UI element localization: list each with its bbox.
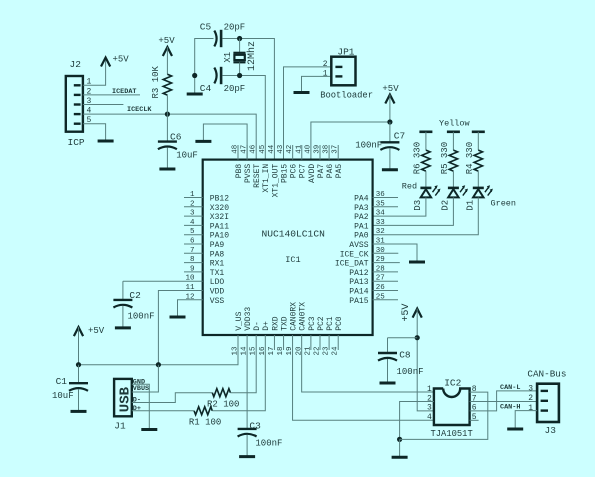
junction C8 tap [415, 335, 420, 340]
capacitor C4 [214, 68, 216, 84]
svg-text:R3 10K: R3 10K [151, 65, 161, 98]
svg-text:PA14: PA14 [349, 288, 368, 297]
svg-text:IC1: IC1 [285, 255, 300, 265]
svg-text:PC7: PC7 [299, 164, 308, 179]
svg-text:AVDD: AVDD [308, 164, 317, 183]
svg-text:RESET: RESET [253, 164, 262, 188]
svg-text:XT1_OUT: XT1_OUT [271, 164, 280, 198]
capacitor C8 [387, 338, 389, 353]
svg-text:C5: C5 [200, 21, 212, 32]
resistor R1 [194, 407, 212, 415]
svg-text:4: 4 [427, 413, 432, 422]
svg-text:D1: D1 [465, 200, 475, 211]
+5V symbol at AVDD [385, 95, 394, 104]
svg-text:20pF: 20pF [224, 84, 246, 94]
wire IC2 pin5 stub [470, 419, 479, 421]
svg-text:JP1: JP1 [337, 46, 354, 57]
svg-text:CAN-L: CAN-L [500, 384, 520, 392]
svg-text:42: 42 [286, 145, 294, 154]
svg-text:32: 32 [376, 228, 385, 236]
junction VDD/VBUS tap [156, 362, 161, 367]
svg-text:ICECLK: ICECLK [127, 106, 152, 114]
svg-text:100nF: 100nF [397, 367, 424, 377]
IC1 bottom pin stubs [273, 335, 275, 350]
svg-text:PA10: PA10 [210, 232, 229, 241]
svg-text:3: 3 [190, 210, 195, 218]
svg-text:D2: D2 [440, 200, 450, 211]
LED D1 [473, 187, 484, 190]
resistor R4 [474, 150, 482, 171]
connector J2 (ICP header) [66, 76, 83, 132]
svg-text:24: 24 [332, 346, 340, 356]
+5V symbol above R3 [163, 47, 172, 56]
svg-text:PA6: PA6 [326, 164, 335, 179]
wire USB GND to ground [132, 384, 150, 428]
svg-text:TXD: TXD [280, 316, 289, 331]
svg-text:8: 8 [190, 256, 195, 264]
svg-text:PA4: PA4 [354, 195, 369, 204]
svg-text:36: 36 [376, 191, 386, 199]
svg-text:18: 18 [277, 346, 285, 355]
wire J3 pin1 to ground [515, 411, 537, 428]
transceiver IC2 body [434, 389, 470, 426]
svg-text:LDO: LDO [210, 278, 225, 287]
svg-text:C4: C4 [200, 83, 212, 94]
svg-text:35: 35 [376, 200, 386, 208]
ground at J2 pin5 [98, 140, 114, 143]
LED D3 [420, 187, 431, 190]
svg-text:100nF: 100nF [355, 141, 382, 151]
svg-text:23: 23 [323, 346, 331, 356]
svg-text:PA12: PA12 [349, 269, 368, 278]
wire USB VBUS to rail [132, 365, 159, 392]
svg-text:39: 39 [313, 145, 321, 154]
svg-text:PC1: PC1 [326, 316, 335, 331]
resistor R6 [422, 150, 430, 171]
wire J2 pin1 to +5V [83, 58, 106, 86]
svg-text:PC2: PC2 [317, 316, 326, 331]
ground at AVSS [409, 261, 425, 264]
svg-text:V_US: V_US [235, 311, 244, 330]
wire C8 tap [388, 337, 418, 339]
svg-text:D-: D- [133, 397, 141, 405]
svg-text:46: 46 [250, 144, 258, 154]
IC1 top pin stubs [237, 145, 239, 160]
svg-text:TJA1051T: TJA1051T [431, 429, 473, 439]
svg-text:5: 5 [190, 228, 195, 236]
LED D2 [448, 187, 459, 190]
wire R2 to D- pin15 [230, 335, 256, 393]
svg-text:48: 48 [232, 145, 240, 154]
svg-text:R1 100: R1 100 [189, 418, 221, 428]
microcontroller IC1 body [203, 160, 373, 335]
wire VSS pin12 to ground [178, 300, 203, 316]
svg-text:CAN-Bus: CAN-Bus [527, 368, 566, 379]
svg-text:37: 37 [332, 145, 340, 154]
svg-text:PA2: PA2 [354, 213, 369, 222]
svg-text:PA7: PA7 [317, 164, 326, 179]
connector JP1 [331, 57, 355, 86]
connector J3 body [537, 384, 559, 422]
svg-text:28: 28 [376, 265, 385, 273]
svg-text:1: 1 [323, 70, 328, 79]
svg-text:26: 26 [376, 284, 386, 292]
svg-text:C2: C2 [129, 290, 141, 301]
svg-text:20pF: 20pF [224, 22, 246, 32]
wire crystal left rail [195, 39, 214, 76]
capacitor C7 [389, 122, 391, 142]
wire R5 to LED [452, 171, 454, 188]
junction top of X1 [237, 36, 242, 41]
svg-text:2: 2 [323, 60, 328, 69]
wire LED D1 to PA pin [373, 197, 479, 234]
svg-text:D3: D3 [413, 200, 423, 211]
svg-text:2: 2 [528, 394, 533, 403]
svg-text:4: 4 [190, 219, 195, 227]
resistor R5 [449, 150, 457, 171]
svg-text:47: 47 [241, 145, 249, 154]
svg-text:PB8: PB8 [235, 164, 244, 179]
wire PVSS pin47 to ground [203, 124, 247, 160]
svg-text:D-: D- [253, 321, 262, 331]
+5V symbol at J2 [101, 58, 110, 67]
svg-text:PA9: PA9 [210, 241, 225, 250]
svg-text:C3: C3 [249, 420, 261, 431]
wire VDD33 pin14 to C3 [246, 335, 248, 429]
wire J2 pin5 to ground [83, 124, 106, 140]
svg-text:ICE_DAT: ICE_DAT [335, 260, 369, 269]
svg-text:Green: Green [491, 199, 517, 209]
svg-text:TX1: TX1 [210, 269, 225, 278]
svg-text:41: 41 [295, 144, 303, 154]
svg-text:12Mhz: 12Mhz [246, 41, 258, 71]
svg-text:CAN0RX: CAN0RX [290, 302, 299, 331]
ground at J3 [507, 428, 523, 431]
svg-text:USB: USB [118, 386, 134, 412]
wire IC2 CANH pin7 to J3 [470, 401, 537, 403]
ground at JP1 pin1 [294, 91, 310, 94]
svg-text:X32I: X32I [210, 213, 229, 222]
wire IC2 GND pin2 [400, 402, 434, 440]
wire JP1 pin2 to PB15 [284, 67, 332, 160]
wire R3 to junction [166, 95, 168, 114]
svg-text:PA3: PA3 [354, 204, 369, 213]
svg-text:RX1: RX1 [210, 260, 225, 269]
svg-text:PA5: PA5 [335, 164, 344, 179]
svg-text:+5V: +5V [401, 304, 412, 322]
svg-text:R5 330: R5 330 [440, 142, 450, 174]
junction IC2 ground [397, 437, 402, 442]
svg-text:ICE_CK: ICE_CK [340, 250, 369, 259]
capacitor C6 [166, 114, 168, 142]
svg-text:PA0: PA0 [354, 232, 369, 241]
svg-text:+5V: +5V [113, 55, 130, 65]
wire AVSS pin31 to ground [373, 244, 417, 261]
svg-text:PB15: PB15 [280, 164, 289, 183]
wire USB D- to R2 [132, 393, 213, 403]
junction C1 tap [76, 362, 81, 367]
svg-text:Bootloader: Bootloader [320, 90, 373, 100]
svg-text:34: 34 [376, 210, 386, 218]
svg-text:38: 38 [323, 145, 331, 154]
wire R6 to LED [425, 171, 427, 188]
junction bottom of X1 [237, 73, 242, 78]
supply bar above R4 [472, 131, 485, 134]
svg-text:10uF: 10uF [176, 150, 198, 160]
ground at IC2 [399, 439, 401, 457]
svg-text:3: 3 [528, 384, 533, 393]
ground at USB [141, 428, 157, 431]
IC1 left pin stubs [184, 197, 203, 199]
svg-text:PC3: PC3 [308, 316, 317, 331]
svg-text:ICEDAT: ICEDAT [112, 88, 136, 96]
svg-text:17: 17 [268, 346, 276, 355]
svg-text:22: 22 [313, 346, 321, 355]
svg-text:RXD: RXD [271, 316, 280, 331]
svg-text:PA11: PA11 [210, 222, 229, 231]
svg-text:100nF: 100nF [255, 439, 282, 449]
svg-text:XT1_IN: XT1_IN [262, 164, 271, 193]
junction crystal left [192, 73, 197, 78]
svg-text:44: 44 [268, 144, 276, 154]
junction C7 tap [387, 119, 392, 124]
svg-text:100nF: 100nF [128, 312, 155, 322]
connector J1 USB body [114, 379, 132, 416]
svg-text:1: 1 [528, 404, 533, 413]
svg-text:PA8: PA8 [210, 250, 225, 259]
wire IC2 CANL pin6 to J3 [470, 391, 537, 411]
wire C5 to XT1_OUT [222, 39, 274, 160]
svg-text:2: 2 [190, 200, 195, 208]
+5V symbol at USB rail [74, 327, 83, 336]
svg-text:IC2: IC2 [444, 378, 461, 389]
svg-text:+5V: +5V [88, 326, 105, 336]
wire J2 pin4 RESET net [83, 114, 256, 160]
capacitor C3 [246, 427, 248, 430]
svg-text:PA1: PA1 [354, 222, 369, 231]
capacitor C1 [78, 365, 80, 384]
svg-text:X320: X320 [210, 204, 229, 213]
resistor R2 [212, 389, 230, 397]
junction R3/C6 on RESET net [165, 112, 170, 117]
svg-text:21: 21 [304, 346, 312, 356]
svg-text:NUC140LC1CN: NUC140LC1CN [262, 228, 325, 239]
svg-text:PA13: PA13 [349, 278, 368, 287]
svg-text:J1: J1 [114, 421, 126, 432]
ground at PVSS [195, 140, 211, 143]
svg-text:Red: Red [402, 182, 417, 192]
wire LED D3 to PA pin [373, 197, 426, 216]
svg-text:AVSS: AVSS [349, 241, 368, 250]
svg-text:33: 33 [376, 219, 386, 227]
svg-text:C8: C8 [399, 349, 411, 360]
svg-text:+5V: +5V [382, 84, 399, 94]
svg-text:R4 330: R4 330 [465, 142, 475, 174]
svg-text:30: 30 [376, 247, 386, 255]
IC1 right pin stubs [373, 197, 398, 199]
svg-text:6: 6 [190, 238, 195, 246]
svg-text:10uF: 10uF [52, 391, 74, 401]
svg-text:VSS: VSS [210, 297, 225, 306]
wire CAN0RX pin19 to IC2 RXD [293, 335, 434, 420]
svg-text:VDD: VDD [210, 288, 225, 297]
svg-text:29: 29 [376, 256, 385, 264]
svg-text:+5V: +5V [158, 36, 175, 46]
svg-text:PC0: PC0 [335, 316, 344, 331]
wire R1 to D+ pin16 [212, 335, 265, 411]
svg-text:J2: J2 [70, 59, 82, 70]
svg-text:43: 43 [277, 144, 285, 154]
capacitor C5 [214, 31, 216, 47]
svg-text:CAN0TX: CAN0TX [299, 302, 308, 331]
svg-text:Yellow: Yellow [439, 119, 471, 129]
resistor R3 [163, 74, 171, 95]
svg-text:D+: D+ [133, 405, 141, 413]
wire VDD pin11 to +5V rail [158, 291, 202, 365]
svg-text:PVSS: PVSS [244, 164, 253, 183]
wire +5V arrow to rail [78, 327, 80, 365]
crystal X1 [239, 39, 241, 53]
wire C4 to XT1_IN [222, 76, 265, 160]
svg-text:C6: C6 [170, 132, 182, 143]
svg-text:C7: C7 [394, 130, 405, 141]
svg-text:PB12: PB12 [210, 195, 229, 204]
svg-text:ICP: ICP [68, 137, 85, 148]
svg-text:VDD33: VDD33 [244, 307, 253, 331]
svg-text:1: 1 [427, 385, 432, 394]
svg-text:45: 45 [259, 144, 267, 154]
wire +5V to IC2 VCC [416, 309, 418, 338]
wire +5V to AVDD pin40 [389, 95, 391, 123]
wire +5V to R3 [166, 47, 168, 74]
wire IC2 S pin8 to ground row [400, 392, 488, 439]
svg-text:R6 330: R6 330 [413, 142, 423, 174]
supply bar above R5 [447, 131, 460, 134]
J2 pin pads [74, 84, 81, 86]
svg-text:PC6: PC6 [290, 164, 299, 179]
svg-text:1: 1 [190, 191, 195, 199]
svg-text:25: 25 [376, 293, 386, 301]
svg-text:3: 3 [427, 404, 432, 413]
svg-text:J3: J3 [545, 425, 557, 436]
wire CAN0TX pin20 to IC2 TXD [302, 335, 434, 392]
capacitor C2 [122, 281, 124, 300]
+5V symbol at IC2 [413, 309, 422, 318]
wire +5V rail to V_US pin13 [79, 335, 239, 365]
svg-text:PA15: PA15 [349, 297, 368, 306]
svg-text:9: 9 [190, 265, 195, 273]
supply bar above R6 [419, 131, 432, 134]
svg-text:C1: C1 [56, 376, 68, 387]
wire J2 pin2 ICEDAT stub [83, 94, 140, 96]
svg-text:40: 40 [304, 144, 312, 154]
wire J2 pin3 stub [83, 104, 124, 106]
wire JP1 pin1 to ground [302, 76, 332, 91]
svg-text:27: 27 [376, 275, 385, 283]
wire USB D+ to R1 [132, 410, 194, 412]
ground below crystal rail [194, 76, 196, 95]
wire LDO pin10 to C2 [123, 280, 203, 282]
wire R4 to LED [477, 171, 479, 188]
svg-text:X1: X1 [223, 52, 233, 63]
svg-text:7: 7 [190, 247, 195, 255]
wire LED D2 to PA pin [373, 197, 454, 225]
svg-text:D+: D+ [262, 321, 271, 331]
ground at VSS [170, 316, 186, 319]
